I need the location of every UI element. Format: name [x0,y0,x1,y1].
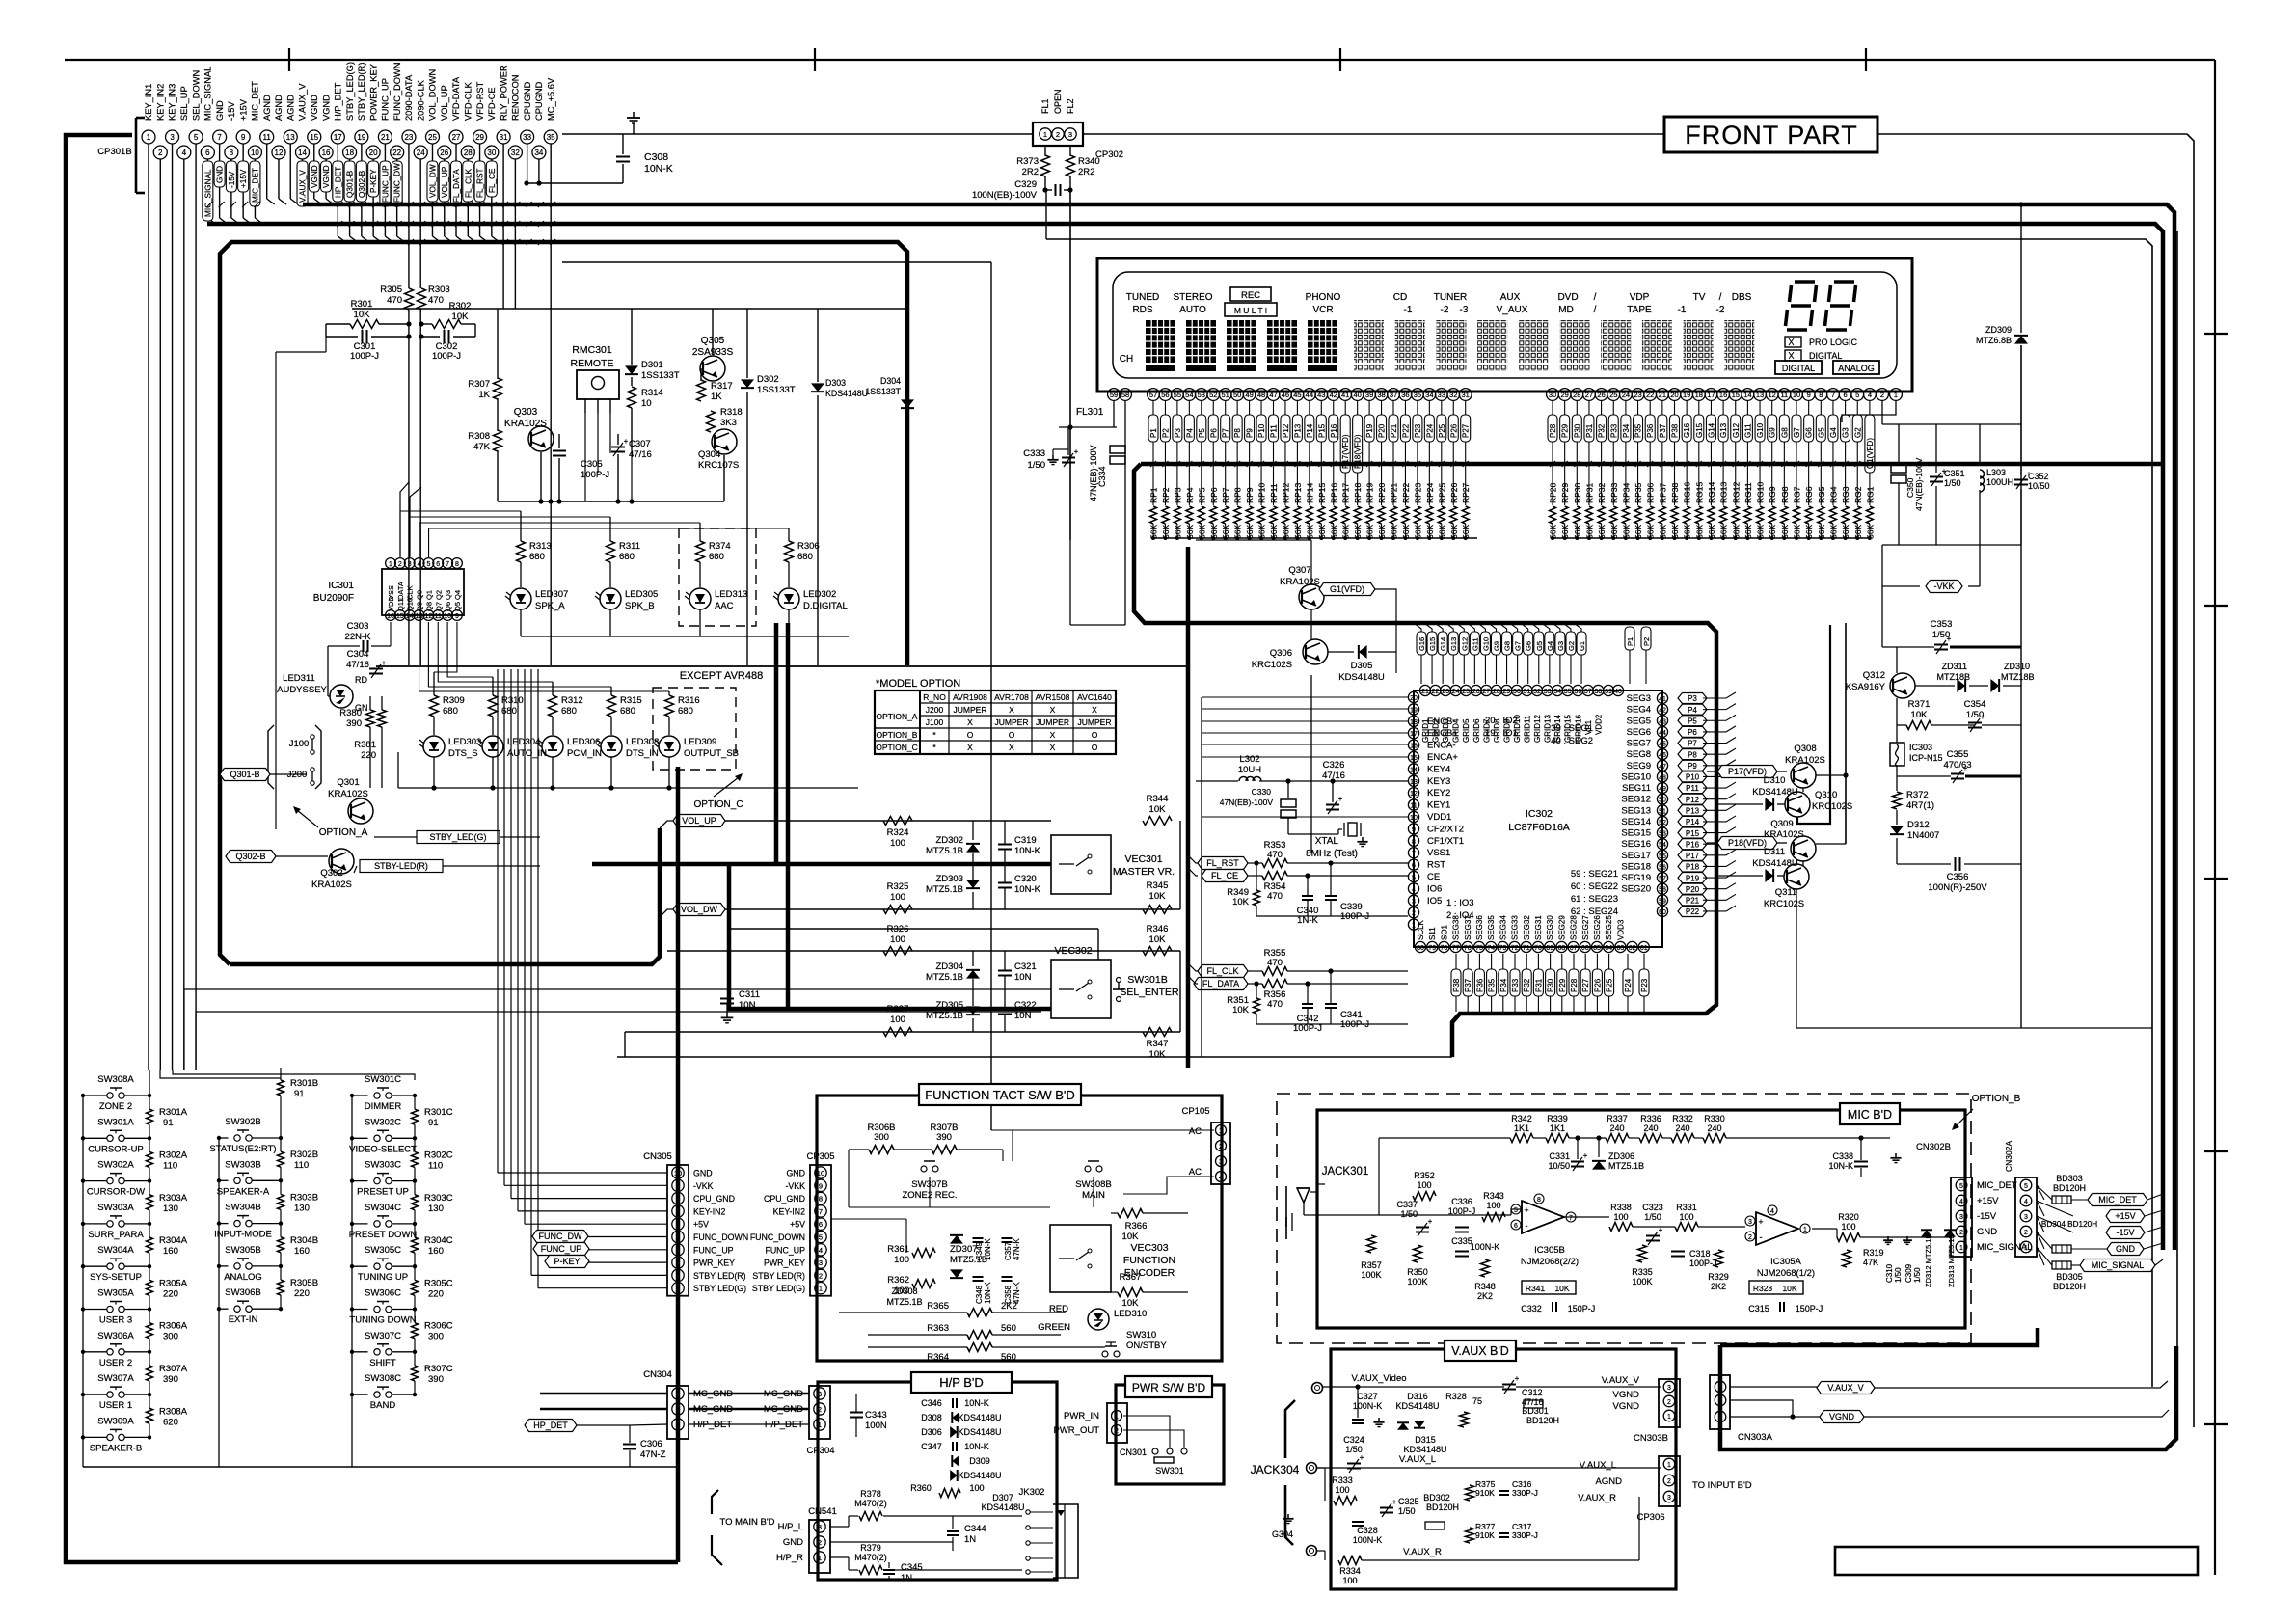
svg-text:P15: P15 [1686,829,1700,838]
svg-text:220: 220 [428,1288,444,1299]
IC302 pin 9 [1408,824,1418,834]
svg-text:FUNC_UP: FUNC_UP [765,1245,805,1255]
connector CP301B pin 12 AGND [272,146,285,159]
svg-text:+: + [1524,1205,1528,1215]
VFD pin 40 [1351,389,1364,401]
net label P19 [1678,873,1707,883]
svg-text:FUNC_UP: FUNC_UP [381,165,390,203]
IC302 pin 78 [1439,941,1449,952]
svg-text:2090-CLK: 2090-CLK [416,79,425,121]
svg-text:C345: C345 [901,1562,923,1573]
svg-text:R303: R303 [428,284,450,295]
svg-text:-15V: -15V [1977,1211,1997,1222]
svg-text:1N: 1N [964,1534,976,1545]
svg-text:R313: R313 [529,541,552,552]
wire xtal to chip [1310,675,1312,853]
svg-text:47N(EB)-100V: 47N(EB)-100V [1089,445,1098,501]
net label GND right [2107,1243,2144,1256]
svg-text:58: 58 [1121,391,1129,399]
svg-text:ZD306: ZD306 [1608,1151,1634,1161]
svg-text:R_NO: R_NO [923,692,946,702]
svg-text:FUNCTION TACT S/W B'D: FUNCTION TACT S/W B'D [925,1088,1075,1102]
svg-text:SW310: SW310 [1126,1330,1156,1340]
svg-text:6: 6 [205,149,210,157]
svg-text:100: 100 [1613,1212,1628,1222]
svg-text:SW306A: SW306A [97,1331,134,1341]
svg-text:47N(EB)-100V: 47N(EB)-100V [1220,798,1274,807]
svg-text:C347: C347 [921,1442,942,1451]
svg-text:RG8: RG8 [1780,486,1790,503]
svg-text:C318: C318 [1689,1249,1711,1259]
svg-text:Q4: Q4 [453,590,462,600]
svg-text:560: 560 [1001,1323,1016,1334]
resistor R307C 390 [412,1366,419,1381]
svg-text:M470(2): M470(2) [854,1499,887,1508]
resistor R317 1K [697,380,706,401]
svg-text:/: / [1719,292,1722,303]
VFD pin 8 [1815,389,1827,401]
connector CP301B pin 6 MIC_SIGNAL [201,146,214,159]
connector CP301B pin 18 STBY_LED(G) [343,146,357,159]
svg-text:P34: P34 [1622,423,1631,438]
svg-text:1/50: 1/50 [1913,1267,1922,1283]
svg-text:AUTO_IN: AUTO_IN [507,748,547,759]
svg-text:SW304C: SW304C [365,1203,401,1213]
svg-text:67: 67 [1570,945,1578,952]
svg-text:10N-K: 10N-K [984,1238,992,1260]
resistor R306B 300 [869,1146,894,1154]
svg-text:IO5: IO5 [1427,896,1442,907]
svg-text:6: 6 [1844,391,1848,399]
svg-text:17: 17 [1410,731,1418,738]
svg-text:19: 19 [1683,391,1690,399]
svg-text:1: 1 [1115,1414,1119,1421]
svg-text:X: X [1050,743,1056,752]
svg-text:5: 5 [676,1233,680,1242]
wires function encoder [848,1150,850,1207]
svg-text:R328: R328 [1445,1392,1467,1401]
VFD pin 49 [1243,389,1256,401]
net label G13 [1448,632,1458,655]
svg-text:SW306B: SW306B [225,1287,261,1298]
net label P18 [1678,861,1707,872]
svg-text:CPUGND: CPUGND [523,81,532,121]
svg-text:54: 54 [1659,842,1666,849]
svg-text:VGND: VGND [1829,1412,1855,1421]
svg-text:LED310: LED310 [1114,1309,1147,1319]
IC302 pin 32 [1531,685,1542,695]
VFD pin 21 [1656,389,1668,401]
capacitor C345 1N [883,1569,895,1571]
svg-text:470: 470 [1267,891,1283,902]
svg-text:FRONT PART: FRONT PART [1685,121,1858,149]
svg-text:KDS4148U: KDS4148U [958,1471,1001,1480]
svg-text:R365: R365 [927,1301,949,1312]
svg-text:P8: P8 [1233,428,1242,438]
wires G labels up to bus [1414,623,1421,632]
svg-text:LED303: LED303 [448,737,481,747]
net label P9 / resistor RP9 56K [1249,401,1251,415]
zener diode ZD312 MTZ5.1B [1921,1230,1932,1237]
net label VOL_DW [427,161,438,202]
svg-text:H/P B'D: H/P B'D [939,1375,984,1390]
svg-text:P14: P14 [1306,423,1314,438]
IC302 pin 43 [1657,716,1667,726]
svg-text:-3: -3 [1460,305,1469,315]
svg-text:GND: GND [783,1537,803,1548]
zener diode ZD307 MTZ5.1B [950,1235,963,1244]
svg-text:RG12: RG12 [1731,482,1741,503]
svg-text:MTZ6.8B: MTZ6.8B [1976,336,2012,345]
svg-text:R302A: R302A [159,1150,188,1160]
svg-text:8: 8 [819,1195,823,1204]
svg-text:C356: C356 [1947,872,1969,882]
net label VGND [309,161,319,192]
svg-text:CPU_GND: CPU_GND [764,1194,805,1204]
net label P13 [1678,805,1707,816]
svg-text:R378: R378 [860,1489,881,1499]
net label P25 / resistor RP25 56K [1441,401,1443,415]
svg-text:1SS133T: 1SS133T [865,387,901,396]
svg-text:BD304 BD120H: BD304 BD120H [2041,1220,2097,1229]
net label G9 [1491,632,1500,655]
net label P-KEY [545,1256,589,1268]
svg-text:LC87F6D16A: LC87F6D16A [1508,822,1570,833]
svg-text:49: 49 [1659,786,1666,793]
svg-text:VFD-DATA: VFD-DATA [451,76,461,121]
svg-text:P38: P38 [1452,978,1461,992]
svg-text:VOL_DW: VOL_DW [681,905,718,914]
IC302 pin 11 [1408,799,1418,810]
svg-text:240: 240 [1675,1123,1689,1133]
zener diode ZD302 MTZ5.1B [966,844,980,853]
resistor R312 680 [552,682,554,695]
svg-text:HP_DET: HP_DET [334,167,342,198]
resistor R381 220 [378,710,387,727]
svg-text:16: 16 [1410,744,1418,750]
svg-text:63: 63 [1617,945,1625,952]
svg-text:V.AUX_R: V.AUX_R [1403,1547,1442,1557]
svg-text:34: 34 [1425,391,1433,399]
net label G7 [1513,632,1523,655]
net label P2 / resistor RP2 56K [1164,401,1166,415]
svg-text:110: 110 [428,1160,443,1171]
svg-text:1: 1 [1803,1227,1807,1233]
diode D304 1SS133T [901,399,914,408]
svg-text:RG7: RG7 [1793,486,1802,503]
svg-text:SHIFT: SHIFT [369,1358,396,1368]
svg-text:22: 22 [1646,391,1654,399]
svg-text:21: 21 [1421,689,1429,695]
svg-text:47N-Z: 47N-Z [640,1449,666,1460]
svg-text:R302C: R302C [424,1150,453,1160]
VFD dot-matrix segment (grid) [1642,320,1672,363]
VFD dot-matrix segment (lit) [1267,320,1297,363]
resistor R371 10K [1906,721,1931,730]
svg-text:KEY_IN2: KEY_IN2 [155,84,165,121]
bus B mic/power (thick) [207,224,2163,1250]
transistor Q303 KRA102S [528,426,554,451]
svg-text:SURR_PARA: SURR_PARA [88,1230,144,1240]
svg-text:14: 14 [406,613,414,620]
connector CP301B pin 35 MC_+5.6V [544,130,557,144]
svg-text:13: 13 [286,133,295,142]
svg-text:L302: L302 [1239,754,1259,765]
svg-text:P13: P13 [1293,423,1302,438]
svg-text:SW303A: SW303A [97,1203,134,1213]
svg-text:J100: J100 [289,739,310,749]
resistor R373 2R2 [1044,146,1046,156]
svg-text:Q5: Q5 [453,602,462,611]
svg-text:1K: 1K [478,390,490,400]
svg-text:R332: R332 [1672,1114,1693,1123]
svg-text:SEG31: SEG31 [1534,915,1543,940]
svg-text:M U L T I: M U L T I [1234,306,1267,315]
svg-text:VGND: VGND [1613,1401,1640,1412]
svg-text:C331: C331 [1549,1151,1570,1161]
capacitor C344 1N [947,1530,959,1532]
svg-text:Q0: Q0 [416,590,424,600]
svg-text:3: 3 [1068,130,1072,139]
svg-text:P26: P26 [1593,978,1602,992]
svg-text:G14: G14 [1439,637,1447,651]
IC302 pin 6 [1408,859,1418,870]
svg-text:REMOTE: REMOTE [571,358,614,369]
svg-text:RD: RD [355,675,367,685]
svg-text:OPEN: OPEN [1053,89,1063,114]
svg-text:FL_DATA: FL_DATA [452,169,461,203]
net label +15V right [2106,1210,2145,1223]
resistor R353 470 [1262,859,1287,868]
svg-text:KEY3: KEY3 [1427,776,1450,787]
IC301 pin 16 [386,610,396,621]
svg-text:CURSOR-UP: CURSOR-UP [88,1144,144,1154]
svg-text:AUX: AUX [1500,292,1521,303]
svg-text:AGND: AGND [1596,1476,1623,1487]
resistor R365 2K2 [967,1309,992,1317]
resistor R306A 300 [147,1323,153,1339]
VFD pin 32 [1447,389,1460,401]
net label STBY_LED(G) [417,831,500,844]
svg-text:40: 40 [1353,391,1361,399]
svg-text:TO MAIN B'D: TO MAIN B'D [719,1517,774,1528]
svg-text:SEG29: SEG29 [1557,915,1566,940]
svg-text:47N(EB)-100V: 47N(EB)-100V [1914,457,1924,511]
svg-text:FL2: FL2 [1066,98,1075,114]
svg-text:18: 18 [1410,719,1418,726]
svg-text:SW302C: SW302C [365,1117,401,1127]
resistor R374 680 [699,523,701,541]
svg-text:10K: 10K [1232,897,1250,907]
capacitor C357 47N-K [1002,1237,1013,1239]
svg-text:1: 1 [1043,130,1047,139]
VFD icon DIGITAL small [1785,350,1801,361]
svg-text:220: 220 [163,1288,178,1299]
zener diode ZD309 MTZ6.8B [2014,336,2028,344]
svg-text:FL_RST: FL_RST [1206,858,1239,868]
net label G16 [1417,632,1426,655]
svg-text:JUMPER: JUMPER [1078,717,1112,727]
svg-text:GND: GND [693,1169,713,1178]
net label P27 / resistor RP27 56K [1465,401,1467,415]
svg-text:USER 2: USER 2 [99,1358,132,1368]
svg-text:-: - [1526,1221,1528,1231]
svg-text:LED304: LED304 [507,737,540,747]
svg-text:R304B: R304B [290,1235,318,1246]
svg-text:KDS4148U: KDS4148U [1752,787,1798,798]
svg-text:29: 29 [1503,689,1511,695]
svg-text:C349: C349 [975,1241,984,1260]
svg-text:Q302-B: Q302-B [358,170,366,198]
IC302 pin 10 [1408,811,1418,822]
svg-text:V.AUX_V: V.AUX_V [1602,1375,1640,1386]
svg-text:+: + [624,437,629,446]
svg-text:SEG7: SEG7 [1627,739,1651,749]
capacitor C329 100N(EB)-100V [1055,184,1057,196]
svg-text:55: 55 [1174,391,1181,399]
svg-text:21: 21 [1659,391,1666,399]
svg-text:SW308C: SW308C [365,1373,401,1384]
svg-text:IC301: IC301 [328,581,354,591]
svg-text:BD120H: BD120H [2053,1282,2086,1291]
net label -VKK [1926,581,1962,593]
svg-text:RP11: RP11 [1269,483,1279,503]
net label G6 [1524,632,1533,655]
svg-text:DVD: DVD [1557,292,1578,303]
IC302 pin 45 [1657,738,1667,748]
svg-text:GND: GND [2116,1244,2136,1254]
svg-text:620: 620 [163,1417,178,1427]
IC302 pin 26 [1471,685,1481,695]
svg-text:240: 240 [1609,1123,1624,1133]
svg-text:5: 5 [426,561,430,568]
svg-text:FL_CLK: FL_CLK [1206,966,1238,976]
svg-text:C310: C310 [1885,1263,1894,1283]
svg-text:VEC301: VEC301 [1124,853,1162,865]
resistor R380 390 [366,710,375,727]
svg-text:9: 9 [455,613,459,620]
MIC B'D option dashed box [1277,1094,1971,1343]
switch block VEC301 MASTER VR. [1051,835,1111,894]
net label FUNC_UP [380,161,391,206]
rail left [82,1096,84,1437]
svg-text:RP12: RP12 [1281,482,1290,503]
svg-text:P10: P10 [1686,773,1700,782]
svg-text:+: + [1392,1498,1397,1506]
svg-text:KEY_IN3: KEY_IN3 [168,84,177,121]
resistor R341 10K boxed [1522,1281,1576,1294]
svg-text:P20: P20 [1378,423,1387,438]
svg-text:R306: R306 [797,541,820,552]
wire vol rows [725,820,1051,822]
svg-text:4: 4 [676,1246,680,1255]
svg-text:10N: 10N [739,1000,756,1011]
VFD pin 22 [1644,389,1657,401]
net label P7 / resistor RP7 56K [1225,401,1227,415]
IC302 pin 38 [1593,685,1604,695]
svg-text:10K: 10K [1554,1284,1569,1293]
VFD dot-matrix segment (grid) [1560,320,1590,363]
svg-text:ZD303: ZD303 [935,874,963,884]
svg-text:+15V: +15V [2115,1211,2135,1221]
svg-text:FUNCTION: FUNCTION [1123,1255,1175,1266]
svg-text:13: 13 [416,613,423,620]
connector CP301B pin 14 V.AUX_V [296,146,310,159]
VFD dot-matrix segment (grid) [1354,320,1384,363]
svg-text:R347: R347 [1147,1039,1169,1049]
svg-text:3: 3 [408,561,412,568]
resistor R302A 110 [147,1151,153,1167]
net label P4 [1678,704,1707,715]
svg-text:SEG38: SEG38 [1452,915,1461,940]
svg-text:V.AUX_V: V.AUX_V [1827,1383,1863,1393]
svg-text:FUNC_UP: FUNC_UP [693,1245,734,1255]
svg-text:43: 43 [1317,391,1325,399]
svg-text:STEREO: STEREO [1173,292,1212,303]
VFD pin 50 [1231,389,1244,401]
svg-text:CP304: CP304 [806,1446,834,1456]
diode D303 KDS4148U [817,309,819,382]
svg-text:20 : IO2: 20 : IO2 [1485,716,1518,726]
svg-text:2090-DATA: 2090-DATA [404,74,414,121]
op-amp IC305A [1756,1212,1798,1245]
sheet frame right border [2214,60,2216,1575]
dashed option box AAC [679,528,756,626]
IC301 pin 14 [404,610,415,621]
svg-text:P11: P11 [1270,424,1279,438]
net label P34 / resistor RP34 56K [1625,401,1627,415]
wire IC301 output to LED308 [428,622,611,687]
svg-text:14: 14 [1743,391,1751,399]
wire IC301 output to LED313 [419,523,700,557]
svg-text:C326: C326 [1323,760,1345,771]
svg-text:100: 100 [890,838,905,849]
svg-text:SEG18: SEG18 [1621,861,1651,872]
wire CP301B pin 8 [230,159,232,218]
svg-text:14: 14 [1410,767,1418,773]
svg-text:10K: 10K [1149,934,1167,945]
svg-text:J100: J100 [926,717,944,727]
wire LED row anode rail [521,636,849,637]
connector CP301B pin 19 STBY_LED(R) [355,130,368,144]
capacitor C350 47N(EB)-100V [1891,465,1906,473]
wire KEY_IN feeds [149,1070,150,1096]
net label P23 / resistor RP23 56K [1417,401,1418,415]
svg-text:R303B: R303B [290,1192,318,1203]
svg-text:10K: 10K [354,310,371,320]
svg-text:R315: R315 [620,695,642,706]
svg-text:BD303: BD303 [2056,1174,2083,1183]
net label G5 / resistor RG5 56K [1820,401,1822,415]
svg-text:P7: P7 [1688,740,1697,748]
svg-text:P36: P36 [1475,978,1484,992]
svg-text:SCLK: SCLK [1417,919,1425,940]
svg-text:4: 4 [1868,391,1872,399]
svg-text:61: 61 [1640,945,1648,952]
VFD pin 29 [1558,389,1571,401]
svg-text:BD120H: BD120H [1526,1416,1559,1425]
svg-text:PRO LOGIC: PRO LOGIC [1809,338,1858,347]
IC302 pin 8 [1408,835,1418,846]
LED LED307 SPK_A [510,588,531,609]
net label P35 / resistor RP35 56K [1637,401,1639,415]
svg-text:RP30: RP30 [1573,482,1582,503]
svg-text:STBY_LED(R): STBY_LED(R) [357,63,366,121]
wire CP301B pin 22 [396,159,398,236]
svg-text:SW305C: SW305C [365,1245,401,1256]
svg-text:C344: C344 [964,1524,986,1534]
svg-text:10K: 10K [1782,1284,1796,1293]
